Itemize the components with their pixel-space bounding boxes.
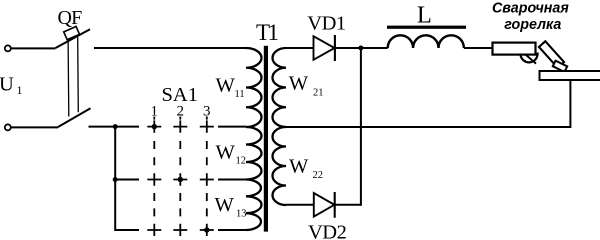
svg-text:3: 3 [203,104,211,120]
svg-text:горелка: горелка [504,17,561,33]
svg-text:12: 12 [236,156,247,167]
svg-text:VD1: VD1 [307,13,346,35]
svg-text:T1: T1 [256,20,279,45]
svg-text:1: 1 [151,104,159,120]
svg-text:1: 1 [17,83,23,97]
svg-text:22: 22 [313,170,324,181]
svg-text:QF: QF [58,7,83,29]
svg-text:W: W [215,194,235,216]
svg-text:13: 13 [236,209,247,220]
svg-text:W: W [216,75,236,97]
svg-text:W: W [289,73,309,95]
svg-text:Сварочная: Сварочная [492,0,569,16]
svg-text:W: W [216,141,236,163]
svg-text:VD2: VD2 [308,221,347,240]
svg-text:21: 21 [313,88,324,99]
svg-text:U: U [0,73,14,95]
svg-text:2: 2 [177,104,185,120]
svg-text:11: 11 [235,89,245,100]
svg-text:W: W [289,156,309,178]
svg-text:L: L [417,2,432,29]
